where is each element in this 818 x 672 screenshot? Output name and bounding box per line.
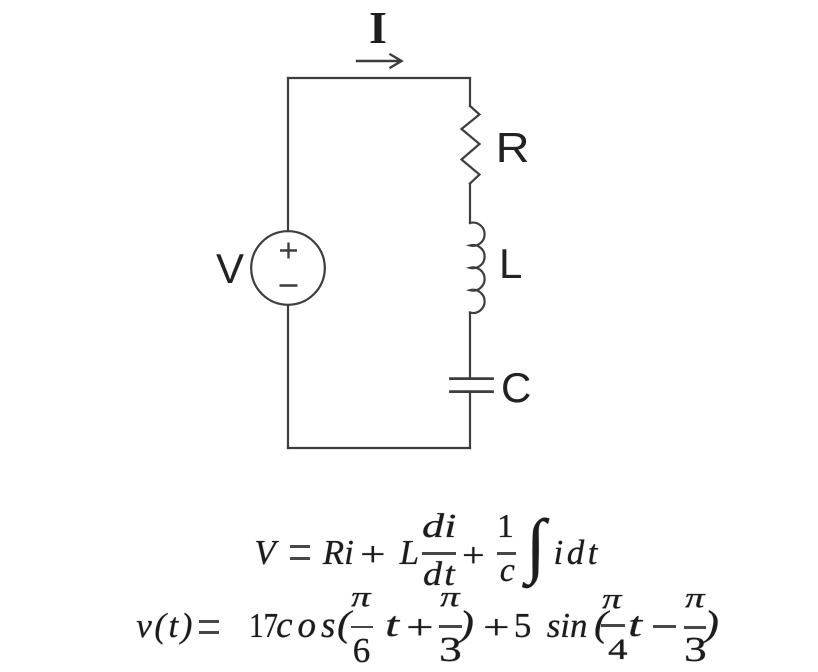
capacitor C bottom plate <box>451 390 493 393</box>
fraction pi/3 <box>440 584 460 612</box>
svg-text:C: C <box>501 364 531 411</box>
svg-text:R: R <box>496 125 530 171</box>
svg-text:L: L <box>499 240 522 287</box>
resistor R <box>462 106 480 184</box>
wire: capacitor to bottom <box>469 393 471 448</box>
plus sign in source <box>280 243 297 259</box>
fraction 1/c <box>497 510 514 544</box>
minus sign in source <box>280 284 298 286</box>
equation 1: V = Ri + L di/dt + 1/c INT idt <box>0 0 818 1</box>
fraction di/dt <box>422 510 456 544</box>
integral sign <box>526 509 546 581</box>
minus sign <box>653 625 676 628</box>
fraction pi/4 <box>602 586 622 614</box>
inductor L <box>470 223 485 313</box>
circuit schematic SVG <box>0 0 818 510</box>
equation 2: v(t) = 17cos(pi/6 t + pi/3) + 5 sin(pi/4 t - pi/3) <box>0 0 818 1</box>
wire: left vertical upper (to source) <box>287 78 289 231</box>
wire: bottom horizontal <box>288 447 470 449</box>
wire: top horizontal <box>288 77 470 79</box>
wire: inductor to capacitor <box>469 313 471 378</box>
fraction pi/6 <box>351 584 371 612</box>
wire: resistor to inductor <box>469 184 471 224</box>
voltage source V circle <box>251 231 325 305</box>
fraction pi/3 second <box>685 585 705 613</box>
svg-text:V: V <box>216 245 244 292</box>
svg-text:I: I <box>369 2 387 53</box>
current arrow <box>357 60 400 62</box>
wire: right vertical top (to resistor) <box>469 78 471 106</box>
wire: left vertical lower (from source) <box>287 305 289 448</box>
capacitor C top plate <box>451 377 493 380</box>
